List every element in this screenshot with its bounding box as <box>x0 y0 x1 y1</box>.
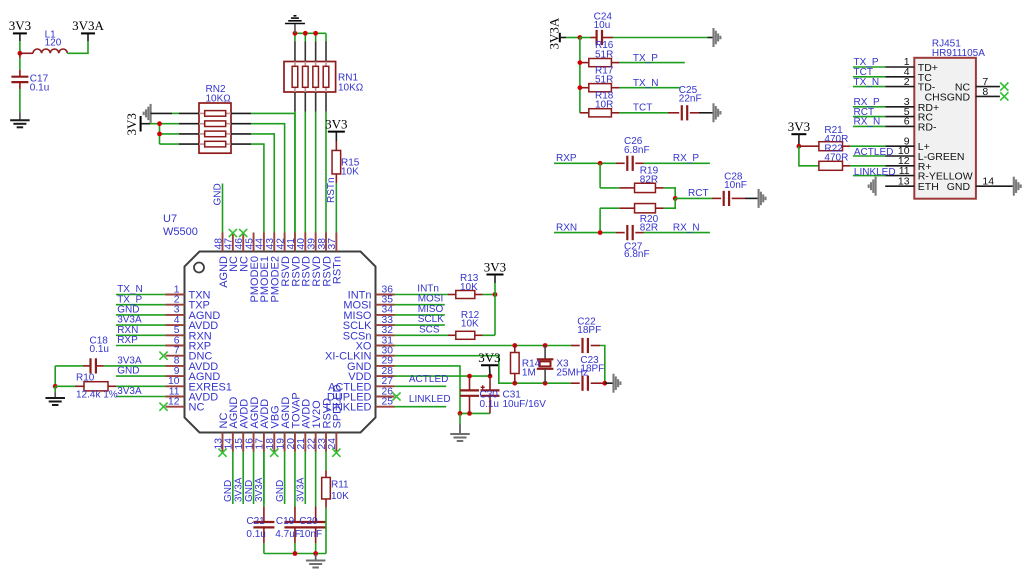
svg-text:RD-: RD- <box>918 121 937 133</box>
svg-text:25: 25 <box>382 397 394 408</box>
svg-text:10uF/16V: 10uF/16V <box>503 399 547 410</box>
svg-text:RXP: RXP <box>556 153 577 164</box>
svg-text:C21: C21 <box>246 516 265 527</box>
svg-text:18: 18 <box>265 438 276 450</box>
svg-text:51R: 51R <box>595 50 613 61</box>
svg-text:C20: C20 <box>299 516 318 527</box>
svg-text:1M: 1M <box>522 367 536 378</box>
svg-text:10K: 10K <box>341 166 359 177</box>
svg-text:NC: NC <box>189 402 205 414</box>
svg-text:TX_P: TX_P <box>633 53 658 64</box>
svg-text:3V3A: 3V3A <box>296 477 307 502</box>
svg-text:3V3: 3V3 <box>124 113 139 135</box>
svg-text:SPDLED: SPDLED <box>332 384 344 428</box>
svg-text:W5500: W5500 <box>163 226 198 238</box>
svg-text:13: 13 <box>898 175 910 187</box>
svg-text:20: 20 <box>286 438 297 450</box>
svg-text:R11: R11 <box>331 480 349 491</box>
svg-text:GND: GND <box>275 480 286 502</box>
svg-text:3V3A: 3V3A <box>72 18 104 33</box>
svg-text:2: 2 <box>904 76 910 88</box>
svg-text:HR911105A: HR911105A <box>932 48 985 59</box>
svg-text:23: 23 <box>317 438 328 450</box>
svg-text:10R: 10R <box>595 100 613 111</box>
svg-text:6.8nF: 6.8nF <box>624 249 650 260</box>
svg-text:10nF: 10nF <box>299 529 322 540</box>
svg-text:SCS: SCS <box>419 324 440 335</box>
svg-text:470R: 470R <box>824 153 848 164</box>
svg-text:GND: GND <box>947 181 971 193</box>
svg-text:47: 47 <box>224 238 235 250</box>
svg-text:CHSGND: CHSGND <box>925 91 971 103</box>
svg-text:RSTn: RSTn <box>332 256 344 284</box>
svg-text:R10: R10 <box>76 372 95 383</box>
svg-text:19: 19 <box>275 438 286 450</box>
svg-text:41: 41 <box>286 238 297 250</box>
svg-text:10K: 10K <box>460 282 478 293</box>
svg-text:RCT: RCT <box>688 188 709 199</box>
svg-text:3V3: 3V3 <box>484 259 506 274</box>
svg-text:37: 37 <box>327 238 338 250</box>
svg-text:3V3: 3V3 <box>478 350 500 365</box>
svg-text:0.1u: 0.1u <box>90 344 109 355</box>
svg-text:0.1u: 0.1u <box>246 529 265 540</box>
svg-text:3V3: 3V3 <box>9 18 31 33</box>
svg-text:12.4k 1%: 12.4k 1% <box>76 390 118 401</box>
svg-text:RX_N: RX_N <box>854 117 881 128</box>
svg-text:14: 14 <box>224 438 235 450</box>
svg-text:22nF: 22nF <box>679 93 702 104</box>
svg-text:16: 16 <box>244 438 255 450</box>
svg-text:14: 14 <box>982 176 994 188</box>
svg-text:ETH: ETH <box>918 181 939 193</box>
svg-text:12: 12 <box>168 397 180 408</box>
svg-text:82R: 82R <box>640 222 658 233</box>
svg-text:6: 6 <box>904 116 910 128</box>
svg-text:10K: 10K <box>331 491 349 502</box>
svg-text:U7: U7 <box>163 213 177 225</box>
svg-text:40: 40 <box>296 238 307 250</box>
svg-text:44: 44 <box>255 238 266 250</box>
svg-text:3V3: 3V3 <box>325 116 347 131</box>
svg-text:RSTn: RSTn <box>326 177 337 203</box>
svg-text:45: 45 <box>244 238 255 250</box>
svg-text:17: 17 <box>255 438 266 450</box>
svg-text:ACTLED: ACTLED <box>409 374 448 385</box>
svg-text:RXN: RXN <box>556 222 577 233</box>
svg-text:RX_N: RX_N <box>673 222 700 233</box>
svg-text:0.1u: 0.1u <box>30 82 49 93</box>
svg-text:3V3A: 3V3A <box>117 386 142 397</box>
svg-text:43: 43 <box>265 238 276 250</box>
svg-text:120: 120 <box>45 38 62 49</box>
svg-text:18PF: 18PF <box>580 364 604 375</box>
svg-text:10nF: 10nF <box>724 180 747 191</box>
svg-text:82R: 82R <box>640 175 658 186</box>
svg-text:GND: GND <box>244 480 255 502</box>
svg-text:42: 42 <box>275 238 286 250</box>
svg-text:TCT: TCT <box>633 103 652 114</box>
svg-text:GND: GND <box>117 366 139 377</box>
svg-text:3V3A: 3V3A <box>233 477 244 502</box>
svg-text:10KΩ: 10KΩ <box>206 93 232 104</box>
svg-text:48: 48 <box>213 238 224 250</box>
svg-text:RXP: RXP <box>117 335 138 346</box>
svg-text:GND: GND <box>213 183 224 205</box>
svg-text:RX_P: RX_P <box>673 153 699 164</box>
svg-text:8: 8 <box>982 86 988 98</box>
svg-text:18PF: 18PF <box>577 325 601 336</box>
svg-text:3V3: 3V3 <box>788 119 810 134</box>
svg-text:22: 22 <box>306 438 317 450</box>
svg-text:10u: 10u <box>594 20 611 31</box>
svg-text:38: 38 <box>317 238 328 250</box>
svg-text:46: 46 <box>234 238 245 250</box>
svg-text:6.8nF: 6.8nF <box>624 145 650 156</box>
svg-text:LINKLED: LINKLED <box>854 167 896 178</box>
svg-text:TX_N: TX_N <box>854 77 880 88</box>
svg-text:15: 15 <box>234 438 245 450</box>
svg-text:GND: GND <box>223 480 234 502</box>
svg-text:39: 39 <box>306 238 317 250</box>
svg-text:C19: C19 <box>276 516 295 527</box>
svg-text:21: 21 <box>296 438 307 450</box>
svg-text:10K: 10K <box>461 318 479 329</box>
svg-text:ACTLED: ACTLED <box>854 147 893 158</box>
svg-text:TX_N: TX_N <box>633 78 659 89</box>
svg-text:4.7uF: 4.7uF <box>275 529 301 540</box>
svg-text:10KΩ: 10KΩ <box>338 83 364 94</box>
svg-text:24: 24 <box>327 438 338 450</box>
svg-text:13: 13 <box>213 438 224 450</box>
svg-text:LINKLED: LINKLED <box>409 394 451 405</box>
svg-text:51R: 51R <box>595 75 613 86</box>
svg-text:0.1u: 0.1u <box>480 399 499 410</box>
